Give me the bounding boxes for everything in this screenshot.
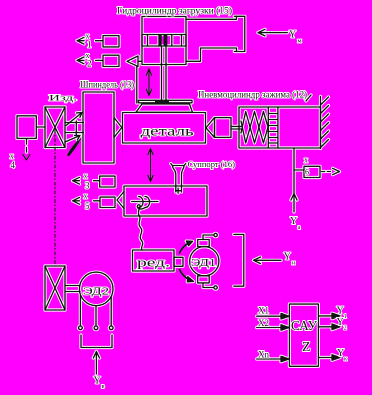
svg-text:в: в (102, 383, 105, 390)
svg-text:Пневмоцилиндр зажима (12): Пневмоцилиндр зажима (12) (198, 90, 307, 100)
svg-text:4: 4 (11, 160, 16, 170)
svg-text:2: 2 (344, 325, 347, 332)
svg-text:1: 1 (87, 40, 92, 50)
svg-text:Y: Y (290, 216, 297, 227)
svg-text:х: х (84, 192, 88, 201)
svg-text:х: х (84, 172, 88, 181)
svg-text:1: 1 (344, 313, 347, 320)
svg-text:Х1: Х1 (258, 306, 269, 316)
svg-text:Суппорт (16): Суппорт (16) (188, 159, 236, 169)
svg-text:Шпиндель (13): Шпиндель (13) (80, 80, 134, 90)
svg-text:Гидроцилиндр загрузки (15): Гидроцилиндр загрузки (15) (117, 6, 232, 16)
svg-text:САУ: САУ (291, 319, 317, 334)
svg-text:Изд.: Изд. (49, 93, 77, 103)
svg-text:3: 3 (85, 181, 90, 191)
svg-text:м: м (298, 38, 302, 45)
svg-text:Y: Y (94, 376, 101, 387)
svg-text:Y: Y (284, 252, 291, 263)
svg-text:2: 2 (87, 59, 92, 69)
svg-text:а: а (298, 224, 301, 231)
svg-text:деталь: деталь (141, 125, 194, 140)
svg-text:ЭД1: ЭД1 (191, 257, 216, 269)
svg-text:ЭД2: ЭД2 (83, 286, 109, 298)
svg-text:6: 6 (305, 168, 309, 177)
svg-text:Z: Z (302, 340, 311, 355)
svg-text:х: х (304, 156, 308, 165)
svg-text:ред.: ред. (137, 255, 170, 270)
svg-text:5: 5 (85, 201, 90, 211)
svg-text:Х2: Х2 (258, 318, 269, 328)
svg-text:Хn: Хn (258, 350, 269, 360)
svg-text:н: н (292, 260, 296, 267)
svg-text:Y: Y (289, 30, 296, 41)
